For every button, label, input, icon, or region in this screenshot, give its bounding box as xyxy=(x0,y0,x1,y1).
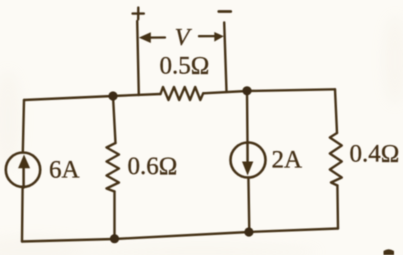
wire 2A branch upper xyxy=(246,91,249,143)
resistor R 0.4ohm zigzag xyxy=(330,133,342,186)
node bottom-right xyxy=(244,227,253,236)
current source I2 arrow down xyxy=(242,143,253,176)
current source I2 circle xyxy=(231,143,266,178)
wire bottom xyxy=(22,229,338,242)
node bottom-left xyxy=(110,234,119,243)
wire middle branch upper xyxy=(113,96,116,143)
arrow left of V xyxy=(139,32,165,43)
svg-text:2A: 2A xyxy=(272,146,303,173)
svg-text:0.5Ω: 0.5Ω xyxy=(160,53,210,80)
wire top-left segment xyxy=(24,94,161,100)
current source I1 circle xyxy=(6,153,40,187)
node top-right xyxy=(242,86,251,95)
arrow right of V xyxy=(199,32,224,42)
wire left branch lower xyxy=(21,187,24,242)
plus sign xyxy=(133,8,144,20)
voltage tick left xyxy=(137,21,139,95)
wire right branch lower xyxy=(336,186,339,229)
wire 2A branch lower xyxy=(247,178,250,233)
voltage tick right xyxy=(224,23,226,92)
current source I1 arrow up xyxy=(18,155,30,188)
svg-text:0.4Ω: 0.4Ω xyxy=(350,140,400,167)
wire right branch upper xyxy=(335,89,337,133)
minus sign xyxy=(219,10,231,13)
resistor R 0.6ohm zigzag xyxy=(107,143,120,192)
wire left branch upper xyxy=(23,100,24,153)
svg-text:0.6Ω: 0.6Ω xyxy=(128,153,178,180)
wire middle branch lower xyxy=(113,192,115,239)
svg-text:6A: 6A xyxy=(49,156,80,183)
node top-left xyxy=(108,91,117,100)
scan speck bottom-right xyxy=(384,249,395,255)
svg-text:V: V xyxy=(175,24,193,51)
wire top-right segment xyxy=(203,89,335,93)
resistor R 0.5ohm zigzag xyxy=(161,87,204,100)
